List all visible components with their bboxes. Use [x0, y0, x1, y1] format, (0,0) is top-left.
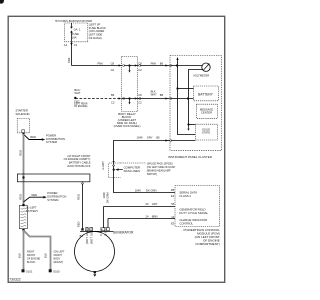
svg-text:RED: RED	[32, 193, 38, 197]
PCM label	[183, 228, 220, 246]
battery B1	[19, 205, 27, 228]
terminal under junction block	[82, 183, 84, 185]
svg-text:CONTROL: CONTROL	[179, 222, 193, 226]
svg-text:RED: RED	[18, 150, 22, 156]
battery negative cable to G100 (thick)	[24, 231, 50, 270]
wire BLK/WHT inside cluster to battery indicator	[170, 98, 193, 100]
solid state dashed box	[195, 124, 217, 140]
svg-text:(AT RIGHT FRONT: (AT RIGHT FRONT	[67, 154, 90, 158]
generator case ground	[94, 271, 97, 274]
ground G100	[49, 269, 52, 272]
wire PNK from fuse down	[71, 42, 73, 66]
svg-text:E3: E3	[171, 221, 175, 225]
svg-text:14: 14	[171, 215, 174, 219]
fuse F1 GAGES 10A	[71, 23, 73, 42]
svg-text:POWER: POWER	[46, 133, 56, 137]
svg-text:D5: D5	[171, 188, 175, 192]
connector out of cluster (serial data)	[165, 139, 168, 141]
wire serial data down to PCM	[114, 141, 176, 193]
svg-text:GA. 1: GA. 1	[74, 28, 81, 32]
svg-text:SYSTEM: SYSTEM	[47, 198, 59, 202]
arrow to power distribution system 2	[24, 197, 44, 202]
vertical feed wire in cluster	[178, 60, 196, 135]
svg-text:STATE: STATE	[202, 131, 210, 135]
svg-text:A4: A4	[64, 43, 68, 47]
svg-text:C3: C3	[138, 68, 142, 72]
svg-text:C1: C1	[74, 43, 78, 47]
svg-text:C8: C8	[138, 61, 142, 65]
terminal B	[22, 130, 25, 133]
svg-text:PNK: PNK	[67, 57, 71, 63]
svg-text:PNK: PNK	[98, 61, 104, 65]
wire inside cluster PNK to voltmeter	[170, 65, 202, 67]
junction in relay block on BLK/WHT wire	[128, 97, 130, 99]
svg-text:B+: B+	[80, 234, 84, 238]
svg-text:DUTY CYCLE SIGNAL: DUTY CYCLE SIGNAL	[179, 211, 208, 215]
fuse block location label	[89, 23, 106, 40]
svg-text:BATTERY CABLE: BATTERY CABLE	[69, 161, 91, 165]
PCM dashed box	[175, 186, 220, 227]
wire GRY generator field	[104, 206, 176, 208]
junction in relay block on PNK wire	[128, 64, 130, 66]
message center dashed box	[196, 104, 217, 118]
svg-text:RED: RED	[30, 135, 36, 139]
node feed junction	[176, 64, 178, 66]
svg-text:PNK: PNK	[151, 61, 157, 65]
svg-text:C2: C2	[111, 68, 115, 72]
svg-text:COMPARTMENT): COMPARTMENT)	[195, 242, 220, 246]
wire BLK/WHT to cluster	[138, 98, 171, 100]
terminal B+ red	[81, 228, 83, 230]
fuse block dashed box	[65, 23, 88, 42]
svg-text:JUNCTION BLOCK: JUNCTION BLOCK	[67, 164, 91, 168]
svg-text:HOT IN RUN, BULB TEST OR START: HOT IN RUN, BULB TEST OR START	[55, 20, 93, 23]
terminal E	[107, 228, 110, 231]
node to solid state	[187, 123, 189, 125]
wire BLK/WHT dashed from S102 to relay block	[75, 98, 121, 100]
voltmeter M1	[202, 63, 210, 71]
svg-text:24: 24	[146, 215, 149, 219]
svg-text:GRY: GRY	[147, 135, 153, 139]
svg-text:WHT: WHT	[151, 93, 157, 97]
connector into body relay block left (wire PNK)	[119, 64, 122, 66]
svg-text:C8: C8	[111, 61, 115, 65]
svg-text:MOUNT): MOUNT)	[54, 261, 64, 264]
body relay block dashed box	[122, 56, 138, 111]
svg-text:RED: RED	[77, 194, 81, 200]
node splice on serial data	[113, 169, 115, 171]
svg-text:C2: C2	[111, 101, 115, 105]
border frame	[8, 16, 225, 282]
svg-text:(NOT USED): (NOT USED)	[89, 227, 93, 244]
wire RED generator B+ feed	[82, 184, 84, 229]
svg-text:POWER: POWER	[47, 191, 57, 195]
svg-text:DISTRIBUTION: DISTRIBUTION	[46, 137, 65, 141]
svg-text:G101: G101	[26, 270, 33, 274]
svg-text:B6: B6	[160, 61, 164, 65]
terminal B not used	[90, 228, 93, 231]
corner mark	[0, 0, 4, 4]
svg-text:B8: B8	[160, 93, 164, 97]
svg-text:DATA LINES: DATA LINES	[124, 169, 140, 173]
node battery cable junction	[22, 133, 24, 135]
starter solenoid dashed box	[17, 119, 29, 133]
svg-text:GENERATOR: GENERATOR	[113, 230, 134, 234]
svg-text:DK GRN: DK GRN	[146, 189, 157, 193]
terminal A not used	[85, 228, 88, 231]
svg-text:C2: C2	[138, 101, 142, 105]
svg-text:SYSTEM: SYSTEM	[46, 140, 58, 144]
wire BLK/WHT inside relay block	[122, 98, 138, 100]
instrument panel cluster dashed box	[170, 56, 222, 151]
svg-text:SWITCH): SWITCH)	[147, 173, 157, 176]
battery positive cable (thick)	[23, 134, 25, 205]
connector out of body relay block right (wire PNK)	[135, 64, 138, 66]
branch to battery indicator	[178, 88, 194, 90]
svg-text:SOLENOID: SOLENOID	[16, 112, 30, 116]
battery cable junction block label	[64, 154, 91, 168]
wire BRN charge indicator	[108, 218, 175, 220]
svg-text:730322: 730322	[9, 278, 20, 282]
svg-text:BLK: BLK	[18, 253, 22, 258]
svg-text:B6: B6	[111, 93, 115, 97]
computer data lines arrow	[115, 168, 118, 170]
splice S102	[74, 97, 76, 99]
svg-text:C8: C8	[138, 93, 142, 97]
splice pack label	[147, 163, 176, 176]
svg-text:B5: B5	[156, 135, 160, 139]
ground G101 label	[27, 251, 41, 264]
battery negative cable to G101 (thick)	[23, 230, 25, 270]
voltmeter return wire	[189, 70, 203, 125]
svg-text:CENTER: CENTER	[201, 111, 212, 115]
svg-text:E1: E1	[171, 194, 175, 198]
svg-text:10A: 10A	[72, 36, 77, 40]
svg-text:BLK: BLK	[44, 253, 48, 258]
svg-text:CLASS 2: CLASS 2	[179, 194, 191, 198]
svg-text:E BRN: E BRN	[104, 227, 108, 236]
svg-text:INSTRUMENT PANEL CLUSTER: INSTRUMENT PANEL CLUSTER	[168, 155, 212, 159]
connector out of relay block right (wire BLK/WHT)	[135, 97, 138, 99]
connector into cluster (wire PNK)	[165, 64, 168, 66]
ground G101	[22, 269, 25, 272]
wire BRN up from terminal E	[107, 219, 109, 228]
svg-text:GRY: GRY	[152, 202, 158, 206]
wire serial data out of cluster	[170, 140, 195, 142]
svg-text:RED: RED	[19, 194, 23, 200]
battery indicator dashed box	[194, 86, 219, 101]
terminal C	[102, 228, 105, 231]
svg-text:OF ENGINE COMPT):: OF ENGINE COMPT):	[64, 157, 91, 161]
svg-text:C GRY: C GRY	[99, 227, 103, 236]
inline connector on serial data wire	[112, 161, 114, 163]
svg-text:G100: G100	[53, 270, 60, 274]
svg-text:OF ENGINE): OF ENGINE)	[74, 106, 88, 108]
splice pack dashed outline	[109, 163, 146, 178]
svg-text:FUSE: FUSE	[72, 32, 79, 36]
svg-text:BATTERY: BATTERY	[198, 92, 214, 96]
svg-text:BATTERY: BATTERY	[26, 209, 38, 213]
svg-text:G GRY: G GRY	[101, 161, 105, 170]
node battery negative	[22, 229, 25, 232]
svg-text:1049: 1049	[135, 189, 141, 193]
svg-text:VOLTMETER: VOLTMETER	[193, 73, 209, 77]
node branch junction	[176, 87, 178, 89]
svg-text:(OVER KICK PANEL): (OVER KICK PANEL)	[114, 124, 141, 128]
svg-text:55: 55	[171, 202, 174, 206]
svg-text:BRN: BRN	[152, 215, 158, 219]
node battery positive	[22, 204, 25, 207]
svg-text:BLOCK:: BLOCK:	[27, 261, 36, 264]
svg-text:DK GRN: DK GRN	[106, 192, 110, 203]
node ground junction	[187, 97, 189, 99]
body relay block label	[114, 112, 141, 128]
svg-text:WHT: WHT	[74, 91, 80, 95]
svg-text:OF DASH): OF DASH)	[89, 36, 102, 40]
svg-text:1049: 1049	[137, 135, 143, 139]
connector into cluster (wire BLK/WHT)	[165, 97, 168, 99]
svg-text:DISTRIBUTION: DISTRIBUTION	[47, 195, 66, 199]
wire PNK horizontal to cluster	[72, 65, 171, 67]
node in junction block	[22, 176, 24, 178]
ground G100 label	[54, 251, 65, 264]
svg-text:RED: RED	[76, 221, 80, 227]
svg-text:1049: 1049	[102, 192, 106, 198]
svg-text:23: 23	[146, 202, 149, 206]
arrow to power distribution system	[24, 135, 42, 140]
connector into body relay block left (wire BLK/WHT)	[119, 97, 122, 99]
generator G1	[75, 232, 115, 272]
battery cable junction block	[17, 174, 90, 182]
wire GRY up from terminal C	[103, 207, 105, 228]
